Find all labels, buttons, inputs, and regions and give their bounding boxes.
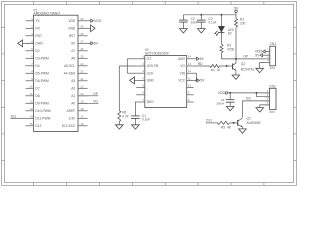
svg-text:OT: OT: [147, 57, 152, 61]
svg-text:LED FB: LED FB: [147, 64, 159, 68]
svg-text:D12: D12: [35, 124, 41, 128]
capacitor C4: [226, 99, 235, 101]
CN2 pin 4 stub: [265, 104, 269, 106]
wire 5V rail horizontal: [183, 14, 236, 16]
connector CN2 body: [270, 88, 277, 109]
P1 pin 7 D4 stub: [26, 65, 34, 67]
svg-text:4K: 4K: [227, 125, 232, 129]
svg-text:A3: A3: [71, 79, 75, 83]
X2 pin 12 stub: [187, 72, 194, 74]
svg-text:D2: D2: [35, 49, 39, 53]
svg-text:19: 19: [80, 99, 83, 103]
svg-text:VO: VO: [180, 64, 185, 68]
ground below C3: [198, 29, 206, 33]
ground below Q1: [232, 75, 240, 79]
CN1 pin 2 stub: [265, 54, 270, 56]
svg-text:0.1uF: 0.1uF: [208, 21, 216, 25]
svg-text:A4-SDA: A4-SDA: [64, 72, 76, 76]
svg-text:26: 26: [80, 47, 83, 51]
svg-text:D11: D11: [206, 119, 212, 123]
svg-text:0.1uF: 0.1uF: [142, 118, 150, 122]
svg-text:BC547AL: BC547AL: [241, 67, 255, 71]
wire C1 to ground: [134, 118, 136, 124]
svg-text:1: 1: [267, 49, 269, 52]
net flag 5V at X2 pin11: [197, 79, 200, 82]
net flag 5V at X2 pin14: [197, 57, 200, 60]
resistor R6: [118, 111, 121, 122]
P1 pin 3 RST stub: [26, 35, 34, 37]
svg-text:28: 28: [80, 32, 83, 36]
svg-text:13: 13: [188, 62, 191, 66]
svg-text:3.3V: 3.3V: [69, 117, 76, 121]
wire C3 to ground: [200, 22, 202, 29]
svg-text:TX: TX: [35, 19, 40, 23]
X2 pin 4 stub: [136, 79, 145, 81]
svg-text:13: 13: [30, 107, 33, 111]
svg-text:27: 27: [80, 39, 83, 43]
svg-text:17: 17: [80, 114, 83, 118]
svg-text:D6-PWM: D6-PWM: [35, 79, 49, 83]
ground below R6: [116, 125, 124, 129]
wire X2 pin7 NEG to C1: [134, 102, 137, 116]
wire P1 pin19 A0 net VG: [78, 102, 98, 104]
wire R1 down to Q1 collector: [235, 27, 237, 59]
wire D11 to R5: [206, 122, 218, 124]
connector CN1 body: [270, 46, 276, 66]
svg-text:VCC: VCC: [178, 79, 185, 83]
svg-text:100: 100: [240, 21, 246, 25]
X2 pin 14 stub: [187, 58, 194, 60]
P1 pin 9 D6-PWM stub: [26, 80, 34, 82]
P1 pin 14 D11-PWM stub: [26, 117, 34, 119]
P1 pin 26 A7 stub: [78, 50, 88, 52]
wire X2 pin13 VO to Q1 base net RD: [194, 65, 210, 67]
junction dot LED branch: [221, 14, 223, 16]
svg-text:Q2: Q2: [247, 116, 251, 120]
svg-text:OP: OP: [93, 92, 99, 96]
IC P1 ARDUINO NANO body: [34, 15, 79, 131]
OP rail horizontal: [222, 58, 266, 60]
svg-text:6: 6: [142, 91, 144, 95]
P1 pin 19 A0 stub: [78, 102, 88, 104]
svg-text:5: 5: [142, 84, 144, 88]
svg-text:4: 4: [31, 39, 33, 43]
svg-text:18: 18: [80, 107, 83, 111]
svg-text:10: 10: [188, 84, 191, 88]
wire X2 pin11 tie: [194, 79, 197, 81]
X2 pin 3 stub: [136, 72, 145, 74]
wire Q2 emitter to ground: [241, 127, 243, 129]
P1 pin 25 A6 stub: [78, 57, 88, 59]
svg-text:D3-PWM: D3-PWM: [35, 57, 49, 61]
svg-text:A0: A0: [71, 102, 75, 106]
svg-text:6: 6: [31, 54, 33, 58]
wire Q1 emitter to ground: [235, 70, 237, 75]
CN1 pin 1 stub: [265, 51, 270, 53]
wire X2 pin3 to tie: [127, 72, 136, 74]
svg-text:5V: 5V: [200, 79, 205, 83]
wire pin2 down to R6: [118, 66, 120, 111]
svg-text:VDD: VDD: [94, 19, 102, 23]
svg-text:LED: LED: [147, 71, 154, 75]
svg-text:5V: 5V: [71, 42, 76, 46]
svg-text:5V: 5V: [234, 7, 239, 11]
svg-text:CN2: CN2: [269, 84, 276, 88]
svg-text:11: 11: [188, 76, 191, 80]
ground below CN2: [256, 108, 264, 112]
svg-text:3: 3: [31, 32, 33, 36]
wire R2 down to OP rail: [221, 53, 223, 59]
resistor R1: [234, 19, 237, 28]
CN1 pin 3 stub: [265, 58, 270, 60]
svg-text:5V: 5V: [200, 57, 205, 61]
junction dot at X2 pin11: [195, 79, 197, 81]
svg-text:2: 2: [142, 62, 144, 66]
P1 pin 12 D9-PWM stub: [26, 102, 34, 104]
P1 pin 29 GND stub: [78, 27, 88, 29]
wire X2 pin2 LED FB: [119, 65, 136, 67]
capacitor C1: [131, 115, 140, 117]
svg-text:D2: D2: [228, 32, 232, 36]
wire P1 pin20 A1 net OP: [78, 95, 98, 97]
wire X2 pin12 tie: [194, 72, 197, 74]
svg-text:D10-PWM: D10-PWM: [35, 109, 50, 113]
svg-text:21: 21: [80, 84, 83, 88]
svg-text:9: 9: [188, 91, 190, 95]
CN2 pin 1 stub: [265, 92, 269, 94]
P1 pin 10 D7 stub: [26, 87, 34, 89]
wire C4 drop: [229, 93, 231, 100]
svg-text:14: 14: [188, 55, 191, 59]
wire rail to LED: [221, 15, 223, 27]
svg-text:D7: D7: [35, 87, 39, 91]
border zone ticks bottom: [34, 183, 264, 186]
LED D2: [218, 26, 224, 32]
svg-text:D9-PWM: D9-PWM: [35, 102, 49, 106]
wire P1 pin30 to VDD flag: [88, 20, 91, 22]
ground below C4: [226, 106, 234, 110]
svg-text:4K: 4K: [217, 68, 221, 72]
ground below C1: [132, 125, 140, 129]
svg-text:D8: D8: [35, 94, 39, 98]
svg-text:7: 7: [142, 98, 144, 102]
P1 pin 22 A3 stub: [78, 80, 88, 82]
border zone ticks left: [2, 27, 5, 160]
svg-text:OP: OP: [243, 54, 249, 58]
wire R5 to Q2 base: [230, 122, 238, 124]
svg-text:25: 25: [80, 54, 83, 58]
capacitor C3: [197, 19, 206, 21]
svg-text:GND: GND: [35, 42, 43, 46]
wire CN2 pin4 to ground: [260, 105, 270, 108]
svg-text:RD: RD: [198, 62, 203, 66]
P1 pin 17 3.3V stub: [78, 117, 88, 119]
svg-text:2X1: 2X1: [269, 110, 275, 114]
svg-text:470E: 470E: [227, 47, 234, 51]
X2 pin 7 stub: [136, 101, 145, 103]
CN2 pin 3 stub: [265, 100, 269, 102]
svg-text:ANO: ANO: [178, 57, 185, 61]
P1 pin 27 5V stub: [78, 42, 88, 44]
svg-text:-: -: [147, 86, 148, 90]
svg-text:NEG: NEG: [147, 100, 155, 104]
CN2 pin 2 stub: [265, 96, 269, 98]
svg-text:4.7K: 4.7K: [122, 114, 129, 118]
junction dot at Q1 base: [226, 65, 228, 67]
wire CN1 pin4 to ground: [260, 63, 266, 69]
svg-text:GND: GND: [147, 79, 155, 83]
svg-text:2X1: 2X1: [270, 66, 276, 70]
P1 pin 5 D2 stub: [26, 50, 34, 52]
svg-text:30: 30: [80, 17, 83, 21]
X2 pin 6 stub: [136, 94, 145, 96]
X2 pin 8 stub: [187, 101, 194, 103]
X2 pin 5 stub: [136, 87, 145, 89]
svg-text:5: 5: [31, 47, 33, 51]
wire P1 pin14 D11-PWM to net D11: [11, 117, 26, 119]
svg-text:D11-PWM: D11-PWM: [35, 117, 50, 121]
X2 pin 9 stub: [187, 94, 194, 96]
svg-text:GND: GND: [68, 27, 76, 31]
wire P1 pin27 to 5V flag: [88, 42, 91, 44]
ground below C2: [180, 29, 188, 33]
sheet inner border: [5, 4, 294, 182]
junction dot C4: [229, 92, 231, 94]
wire R4 to Q1 base: [220, 65, 233, 67]
svg-text:8: 8: [31, 69, 33, 73]
svg-text:9: 9: [31, 77, 33, 81]
svg-text:D4: D4: [35, 64, 39, 68]
P1 pin 21 A2 stub: [78, 87, 88, 89]
svg-text:5V: 5V: [94, 42, 99, 46]
P1 pin 30 VDD stub: [78, 20, 88, 22]
svg-text:100nF: 100nF: [216, 102, 224, 106]
transistor Q1 BC547AL: [235, 59, 237, 63]
wire tie pins 1-3 vertical: [126, 59, 128, 73]
svg-text:RST: RST: [69, 34, 75, 38]
wire R6 to ground: [118, 122, 120, 125]
svg-text:3: 3: [267, 56, 269, 59]
svg-text:8: 8: [188, 98, 190, 102]
svg-text:CN1: CN1: [270, 42, 277, 46]
X2 pin 10 stub: [187, 87, 194, 89]
svg-text:AREF: AREF: [67, 109, 76, 113]
svg-text:29: 29: [80, 24, 83, 28]
svg-text:23: 23: [80, 69, 83, 73]
P1 pin 15 D12 stub: [26, 125, 34, 127]
ground flag at P1 pin29: [88, 27, 91, 29]
svg-text:D5-PWM: D5-PWM: [35, 72, 49, 76]
resistor R5: [217, 121, 229, 124]
wire C3 to rail: [200, 15, 202, 20]
svg-text:15: 15: [30, 122, 33, 126]
svg-text:Q1: Q1: [241, 62, 245, 66]
ground flag at P1 pin4 GND: [23, 42, 34, 44]
svg-text:12: 12: [30, 99, 33, 103]
P1 pin 16 D13-SCK stub: [78, 125, 88, 127]
wire 5V down: [235, 13, 237, 19]
X2 pin 11 stub: [187, 79, 194, 81]
svg-text:AUD065S: AUD065S: [247, 121, 261, 125]
svg-text:VIN: VIN: [180, 71, 186, 75]
svg-text:4: 4: [142, 76, 144, 80]
svg-text:A7: A7: [71, 49, 75, 53]
P1 pin 8 D5-PWM stub: [26, 72, 34, 74]
svg-text:12: 12: [188, 69, 191, 73]
svg-text:11: 11: [30, 92, 33, 96]
CN1 pin 4 stub: [265, 62, 270, 64]
junction dot OP rail: [235, 58, 237, 60]
svg-text:-: -: [147, 93, 148, 97]
svg-text:GP2Y0D810Z0F: GP2Y0D810Z0F: [145, 52, 169, 56]
svg-text:7: 7: [31, 62, 33, 66]
svg-text:A5-SCL: A5-SCL: [64, 64, 75, 68]
wire VDD rail to CN2 pin1: [228, 92, 270, 94]
wire C2 to ground: [182, 22, 184, 29]
P1 pin 13 D10-PWM stub: [26, 110, 34, 112]
sheet outer border: [2, 2, 297, 186]
ground flag at X2 pin4: [134, 79, 136, 81]
resistor R2: [220, 44, 223, 53]
P1 pin 6 D3-PWM stub: [26, 57, 34, 59]
junction dot VDD to pin2: [256, 92, 258, 94]
P1 pin 20 A1 stub: [78, 95, 88, 97]
svg-text:R5: R5: [221, 125, 225, 129]
wire CN2 pin3 net OS to Q2 collector: [243, 101, 270, 118]
wire X2 pin14 to 5V flag: [194, 58, 197, 60]
wire C2 to rail: [182, 15, 184, 20]
svg-text:16: 16: [80, 122, 83, 126]
svg-text:10uF: 10uF: [191, 21, 198, 25]
svg-text:14: 14: [30, 114, 33, 118]
svg-text:20: 20: [80, 92, 83, 96]
svg-text:A1: A1: [71, 94, 75, 98]
wire LED to R2: [221, 32, 223, 44]
P1 pin 18 AREF stub: [78, 110, 88, 112]
X2 pin 1 stub: [136, 58, 145, 60]
border zone ticks right: [294, 27, 297, 160]
P1 pin 1 TX stub: [26, 20, 34, 22]
svg-text:A6: A6: [71, 57, 75, 61]
net flag VDD at P1 pin30: [91, 19, 94, 22]
svg-text:RX: RX: [35, 27, 40, 31]
P1 pin 2 RX stub: [26, 27, 34, 29]
P1 pin 4 GND stub: [26, 42, 34, 44]
resistor R4: [210, 64, 220, 67]
svg-text:2: 2: [31, 24, 33, 28]
svg-text:1: 1: [31, 17, 33, 21]
wire X2 pin1 to tie: [127, 58, 136, 60]
svg-text:VDD: VDD: [218, 91, 226, 95]
svg-text:RST: RST: [35, 34, 42, 38]
border zone ticks top: [34, 2, 264, 5]
svg-text:5V: 5V: [255, 53, 260, 57]
svg-text:VG: VG: [93, 100, 98, 104]
X2 pin 2 stub: [136, 65, 145, 67]
X2 pin 13 stub: [187, 65, 194, 67]
svg-text:10: 10: [30, 84, 33, 88]
capacitor C2: [179, 19, 188, 21]
P1 pin 24 A5-SCL stub: [78, 65, 88, 67]
svg-text:22: 22: [80, 77, 83, 81]
ground below CN1: [256, 68, 264, 72]
svg-text:VDD: VDD: [68, 19, 75, 23]
transistor Q2 AUD065S: [237, 120, 239, 126]
svg-text:24: 24: [80, 62, 83, 66]
net flag 5V at P1 pin27: [91, 42, 94, 45]
svg-text:R4: R4: [211, 68, 215, 72]
svg-text:ARDUINO NANO: ARDUINO NANO: [34, 12, 61, 16]
svg-text:2: 2: [267, 52, 269, 55]
junction dot C3: [200, 14, 202, 16]
wire C4 to ground: [229, 102, 231, 106]
svg-text:D11: D11: [11, 114, 17, 118]
wire tie pins 12-11 vertical: [195, 73, 197, 80]
svg-text:3: 3: [142, 69, 144, 73]
junction dot Q2 base: [233, 122, 235, 124]
wire VDD to CN2 pin2: [257, 93, 270, 97]
P1 pin 28 RST stub: [78, 35, 88, 37]
svg-text:OS: OS: [246, 97, 252, 101]
IC X2 sensor body: [145, 56, 187, 108]
P1 pin 23 A4-SDA stub: [78, 72, 88, 74]
ground below Q2: [239, 129, 247, 133]
svg-text:A2: A2: [71, 87, 75, 91]
P1 pin 11 D8 stub: [26, 95, 34, 97]
svg-text:D13-SCK: D13-SCK: [62, 124, 76, 128]
